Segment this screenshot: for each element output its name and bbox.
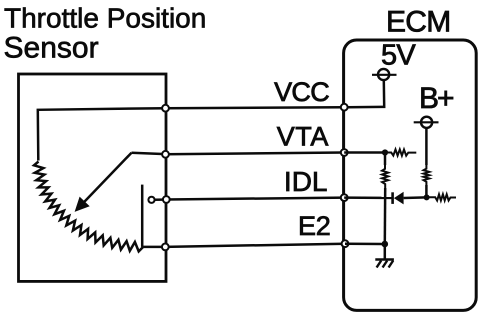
svg-text:ECM: ECM [386, 6, 451, 39]
sensor box (Throttle Position Sensor outline) [19, 74, 167, 281]
B+ terminal crossbar [414, 121, 439, 123]
ECM box outline [344, 40, 477, 310]
svg-text:5V: 5V [381, 40, 416, 72]
5V wire to VCC [348, 80, 385, 107]
5V terminal crossbar [372, 74, 397, 76]
terminal circle E2 sensor-side [162, 244, 169, 251]
diode triangle (anode, pointing left) [394, 192, 404, 205]
junction dot IDL/B+ [424, 194, 430, 200]
VTA wire inside ECM [344, 151, 385, 154]
ground symbol [375, 260, 394, 268]
svg-text:VTA: VTA [277, 121, 329, 151]
diode bar (cathode) [391, 192, 394, 204]
resistor right of VTA junction (horizontal) [388, 149, 416, 155]
ground stub [384, 244, 387, 260]
sensor internal VTA wire [132, 153, 166, 154]
svg-text:VCC: VCC [274, 77, 329, 107]
resistor on B+ branch (vertical) [424, 165, 430, 185]
junction dot E2 [382, 241, 389, 248]
5V terminal circle [378, 69, 389, 80]
wiper arrowhead [75, 197, 90, 212]
wire IDL [166, 198, 344, 200]
wire VCC [166, 107, 345, 108]
svg-text:Throttle Position: Throttle Position [4, 3, 206, 34]
svg-text:B+: B+ [419, 82, 454, 115]
terminal circle VTA ECM-side [341, 149, 348, 156]
terminal circle IDL ECM-side [341, 194, 348, 201]
IDL contact wire [155, 198, 163, 201]
IDL contact arm [141, 185, 144, 247]
svg-text:E2: E2 [298, 211, 331, 241]
terminal circle VCC ECM-side [341, 104, 348, 111]
E2 wire inside ECM [345, 242, 385, 245]
B+ terminal circle [421, 117, 432, 128]
wire B+ resistor to IDL junction [425, 185, 428, 197]
sensor internal E2 wire [143, 246, 165, 249]
terminal circle IDL sensor-side [163, 196, 170, 203]
IDL wire inside ECM [344, 196, 392, 199]
junction dot VTA [382, 149, 388, 155]
IDL contact circle [148, 197, 154, 203]
vertical wire resistor down to E2 [384, 188, 387, 244]
svg-text:Sensor: Sensor [4, 32, 99, 65]
terminal circle VTA sensor-side [162, 151, 169, 158]
potentiometer resistive arc [34, 162, 143, 252]
wire E2 [165, 244, 345, 247]
resistor VTA-to-IDL (vertical) [382, 165, 388, 188]
resistor right of IDL junction (horizontal) [429, 194, 456, 200]
svg-text:IDL: IDL [284, 166, 328, 197]
sensor internal VCC wire [38, 108, 166, 160]
B+ wire down [425, 128, 428, 165]
wiper arrow shaft [82, 153, 132, 205]
terminal circle VCC sensor-side [162, 105, 169, 112]
wire VTA [166, 153, 345, 155]
wire diode to IDL junction [404, 196, 427, 199]
terminal circle E2 ECM-side [342, 240, 349, 247]
vertical wire VTA junction down to resistor [384, 153, 387, 166]
